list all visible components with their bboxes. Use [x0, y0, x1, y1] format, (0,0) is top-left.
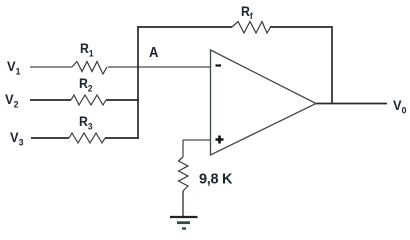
- wire output: [316, 103, 387, 105]
- svg-text:R1: R1: [80, 40, 94, 58]
- wire R1 to op-amp (node A line): [108, 66, 211, 68]
- wire feedback top right segment: [270, 26, 332, 28]
- op-amp minus sign: [216, 64, 222, 66]
- label R2: [79, 75, 93, 93]
- svg-text:9,8 K: 9,8 K: [199, 172, 233, 188]
- svg-text:V3: V3: [10, 130, 23, 148]
- wire input bus vertical: [137, 27, 139, 138]
- op-amp U1: [211, 50, 317, 155]
- wire feedback top left segment: [137, 26, 232, 28]
- resistor R3: [69, 133, 105, 143]
- label V0: [393, 98, 406, 116]
- svg-text:R3: R3: [79, 113, 93, 131]
- ground: [170, 216, 198, 218]
- wire feedback right vertical: [331, 26, 333, 103]
- op-amp plus sign: [216, 136, 224, 144]
- label V1: [7, 59, 20, 77]
- resistor R2: [71, 95, 106, 105]
- label V3: [10, 130, 23, 148]
- label R3: [79, 113, 93, 131]
- wire V2 to R2: [30, 99, 71, 101]
- label node A: [149, 44, 158, 60]
- resistor Rf: [232, 22, 271, 34]
- wire V3 to R3: [31, 137, 69, 139]
- wire R3 to bus: [105, 137, 139, 139]
- wire R2 to bus: [106, 99, 139, 101]
- wire plus input down to resistor: [182, 140, 184, 157]
- svg-text:V2: V2: [5, 92, 18, 110]
- svg-text:V1: V1: [7, 59, 20, 77]
- label V2: [5, 92, 18, 110]
- wire op-amp plus input horizontal: [183, 139, 211, 141]
- resistor R1: [72, 62, 107, 75]
- wire V1 to R1: [30, 66, 72, 68]
- svg-text:A: A: [149, 44, 158, 60]
- svg-text:R2: R2: [79, 75, 93, 93]
- label Rf: [241, 3, 253, 21]
- resistor 9.8K vertical: [179, 157, 189, 191]
- svg-text:Rf: Rf: [241, 3, 253, 21]
- svg-text:V0: V0: [393, 98, 406, 116]
- label R1: [80, 40, 94, 58]
- wire resistor to ground: [182, 191, 184, 217]
